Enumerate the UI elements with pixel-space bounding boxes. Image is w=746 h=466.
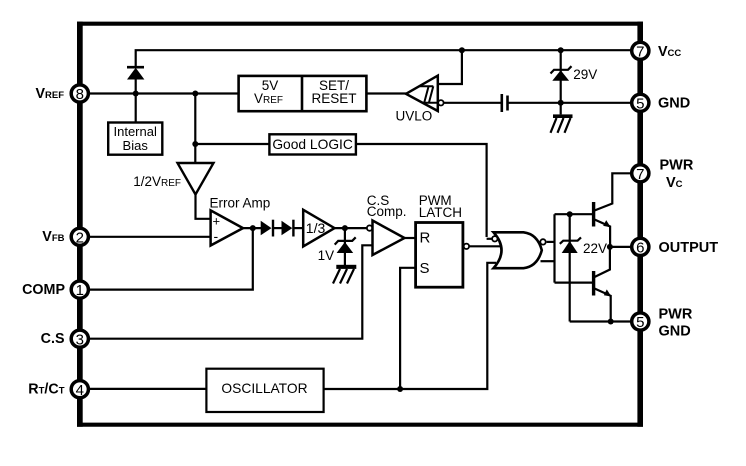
wire latch output to NOR gate (469, 245, 502, 247)
pin 6 OUTPUT (632, 238, 719, 256)
wire OUTPUT line (610, 246, 640, 248)
wire Good LOGIC to NOR gate (356, 144, 487, 237)
NOR gate U2 (492, 232, 546, 268)
svg-text:Internal: Internal (114, 124, 157, 139)
svg-text:LATCH: LATCH (419, 205, 462, 220)
svg-text:PWR: PWR (660, 157, 694, 173)
wire C.S comp to latch R (404, 237, 415, 239)
wire top base line (555, 213, 593, 215)
transistor Q1 (top) (594, 173, 640, 247)
wire UVLO input from Vcc rail (438, 50, 462, 84)
svg-text:3: 3 (76, 331, 84, 348)
svg-text:OSCILLATOR: OSCILLATOR (221, 381, 307, 396)
node Good LOGIC branch junction (192, 141, 198, 147)
wire VREF branch down to 1/2VREF (194, 94, 196, 164)
pin 4 RT/CT (28, 381, 88, 399)
svg-text:1/3: 1/3 (306, 220, 326, 236)
wire oscillator output to NOR bottom input (324, 263, 496, 389)
op-amp Error Amp (210, 196, 271, 246)
svg-text:GND: GND (658, 96, 690, 112)
node UVLO Vcc tap (459, 47, 465, 53)
pin 5 PWR GND (632, 306, 693, 339)
svg-text:22V: 22V (583, 241, 607, 256)
svg-text:4: 4 (76, 382, 84, 399)
node PWR GND junction (608, 319, 614, 325)
pin 5 GND (632, 94, 691, 112)
wire VREF line (80, 92, 239, 94)
node output junction (607, 244, 613, 250)
wire COMP to error amp output (80, 228, 253, 290)
diode D3 (273, 220, 293, 237)
pin 7 Vcc (632, 42, 682, 60)
comparator UVLO (396, 76, 439, 124)
svg-text:OUTPUT: OUTPUT (659, 240, 719, 256)
zener 22V (560, 214, 607, 321)
svg-text:8: 8 (76, 86, 84, 103)
wire NOR lower tap to driver bus (541, 260, 555, 262)
wire Good LOGIC left segment (195, 143, 269, 145)
svg-text:5: 5 (636, 314, 644, 331)
svg-text:C.S: C.S (41, 331, 65, 347)
latch output bubble (464, 244, 469, 249)
IC boundary box (77, 22, 643, 26)
wire to NOR top input bubble (487, 238, 492, 240)
diode D2 (261, 220, 273, 237)
svg-text:Bias: Bias (123, 138, 149, 153)
wire driver bus vertical (553, 214, 555, 282)
wire bottom base line (555, 282, 593, 284)
pin 3 C.S (41, 330, 89, 348)
svg-text:GND: GND (659, 323, 691, 339)
pin 8 VREF (35, 85, 88, 103)
svg-text:+: + (213, 213, 221, 228)
svg-text:Error Amp: Error Amp (210, 196, 271, 211)
wire Vcc rail (136, 50, 641, 67)
buffer 1/2VREF (133, 163, 213, 195)
svg-text:-: - (214, 228, 219, 244)
wire S input (400, 268, 416, 389)
svg-text:1: 1 (76, 282, 84, 299)
node 22V zener top (567, 211, 573, 217)
svg-text:R: R (420, 230, 431, 247)
svg-text:RESET: RESET (311, 91, 356, 106)
svg-text:COMP: COMP (22, 282, 65, 298)
zener 29V (551, 50, 598, 103)
wire VFB to error amp - (80, 236, 211, 238)
node zener top (558, 47, 564, 53)
wire 1/2VREF to error amp + (196, 195, 211, 219)
node zener bottom (558, 100, 564, 106)
svg-text:6: 6 (636, 240, 644, 257)
transistor Q2 (bottom) (594, 247, 612, 322)
wire RT/CT to oscillator (80, 388, 207, 390)
svg-text:1V: 1V (318, 248, 335, 263)
block 5V VREF / SET RESET (239, 76, 367, 111)
ground symbol (1V zener) (333, 265, 356, 284)
buffer 1/3 (303, 210, 334, 247)
node diode-VREF junction (133, 91, 139, 97)
node VREF branch junction (192, 91, 198, 97)
svg-text:UVLO: UVLO (396, 109, 433, 124)
node S-oscillator junction (397, 386, 403, 392)
wire diode to 1/3 buffer (293, 227, 303, 229)
diode D1 (VREF to Vcc rail) (127, 67, 144, 93)
block Good LOGIC (269, 134, 356, 154)
zener 1V (318, 228, 356, 265)
node 1V zener junction (342, 225, 348, 231)
capacitor C1 (502, 94, 508, 112)
wire UVLO bubble to capacitor (444, 102, 502, 104)
svg-text:7: 7 (636, 43, 644, 60)
ground symbol (near GND pin) (551, 103, 573, 133)
block Internal Bias (108, 123, 162, 155)
pin 7 PWR Vc (632, 157, 694, 191)
UVLO output bubble (438, 100, 443, 105)
wire SET/RESET to UVLO (366, 92, 406, 94)
svg-text:2: 2 (76, 229, 84, 246)
svg-text:7: 7 (636, 166, 644, 183)
wire error amp output (243, 227, 261, 229)
wire Internal Bias to VREF line (135, 94, 137, 123)
wire capacitor to GND pin (508, 102, 641, 104)
wire 1/3 output to C.S comparator (335, 227, 367, 229)
node COMP junction (250, 225, 256, 231)
wire zener to PWR GND line (570, 320, 640, 322)
svg-text:5: 5 (636, 95, 644, 112)
pin 1 COMP (22, 281, 88, 299)
block OSCILLATOR (206, 369, 323, 412)
svg-text:S: S (420, 260, 430, 277)
svg-text:PWR: PWR (659, 306, 693, 322)
comparator C.S Comp (367, 193, 407, 255)
svg-text:5V: 5V (262, 78, 279, 93)
wire NOR output to driver bus (547, 241, 555, 243)
svg-text:Good LOGIC: Good LOGIC (272, 137, 353, 152)
svg-text:Comp.: Comp. (367, 204, 407, 219)
block PWM LATCH (416, 193, 463, 287)
svg-text:29V: 29V (573, 67, 597, 82)
pin 2 VFB (42, 228, 88, 246)
wire C.S input (80, 245, 373, 338)
